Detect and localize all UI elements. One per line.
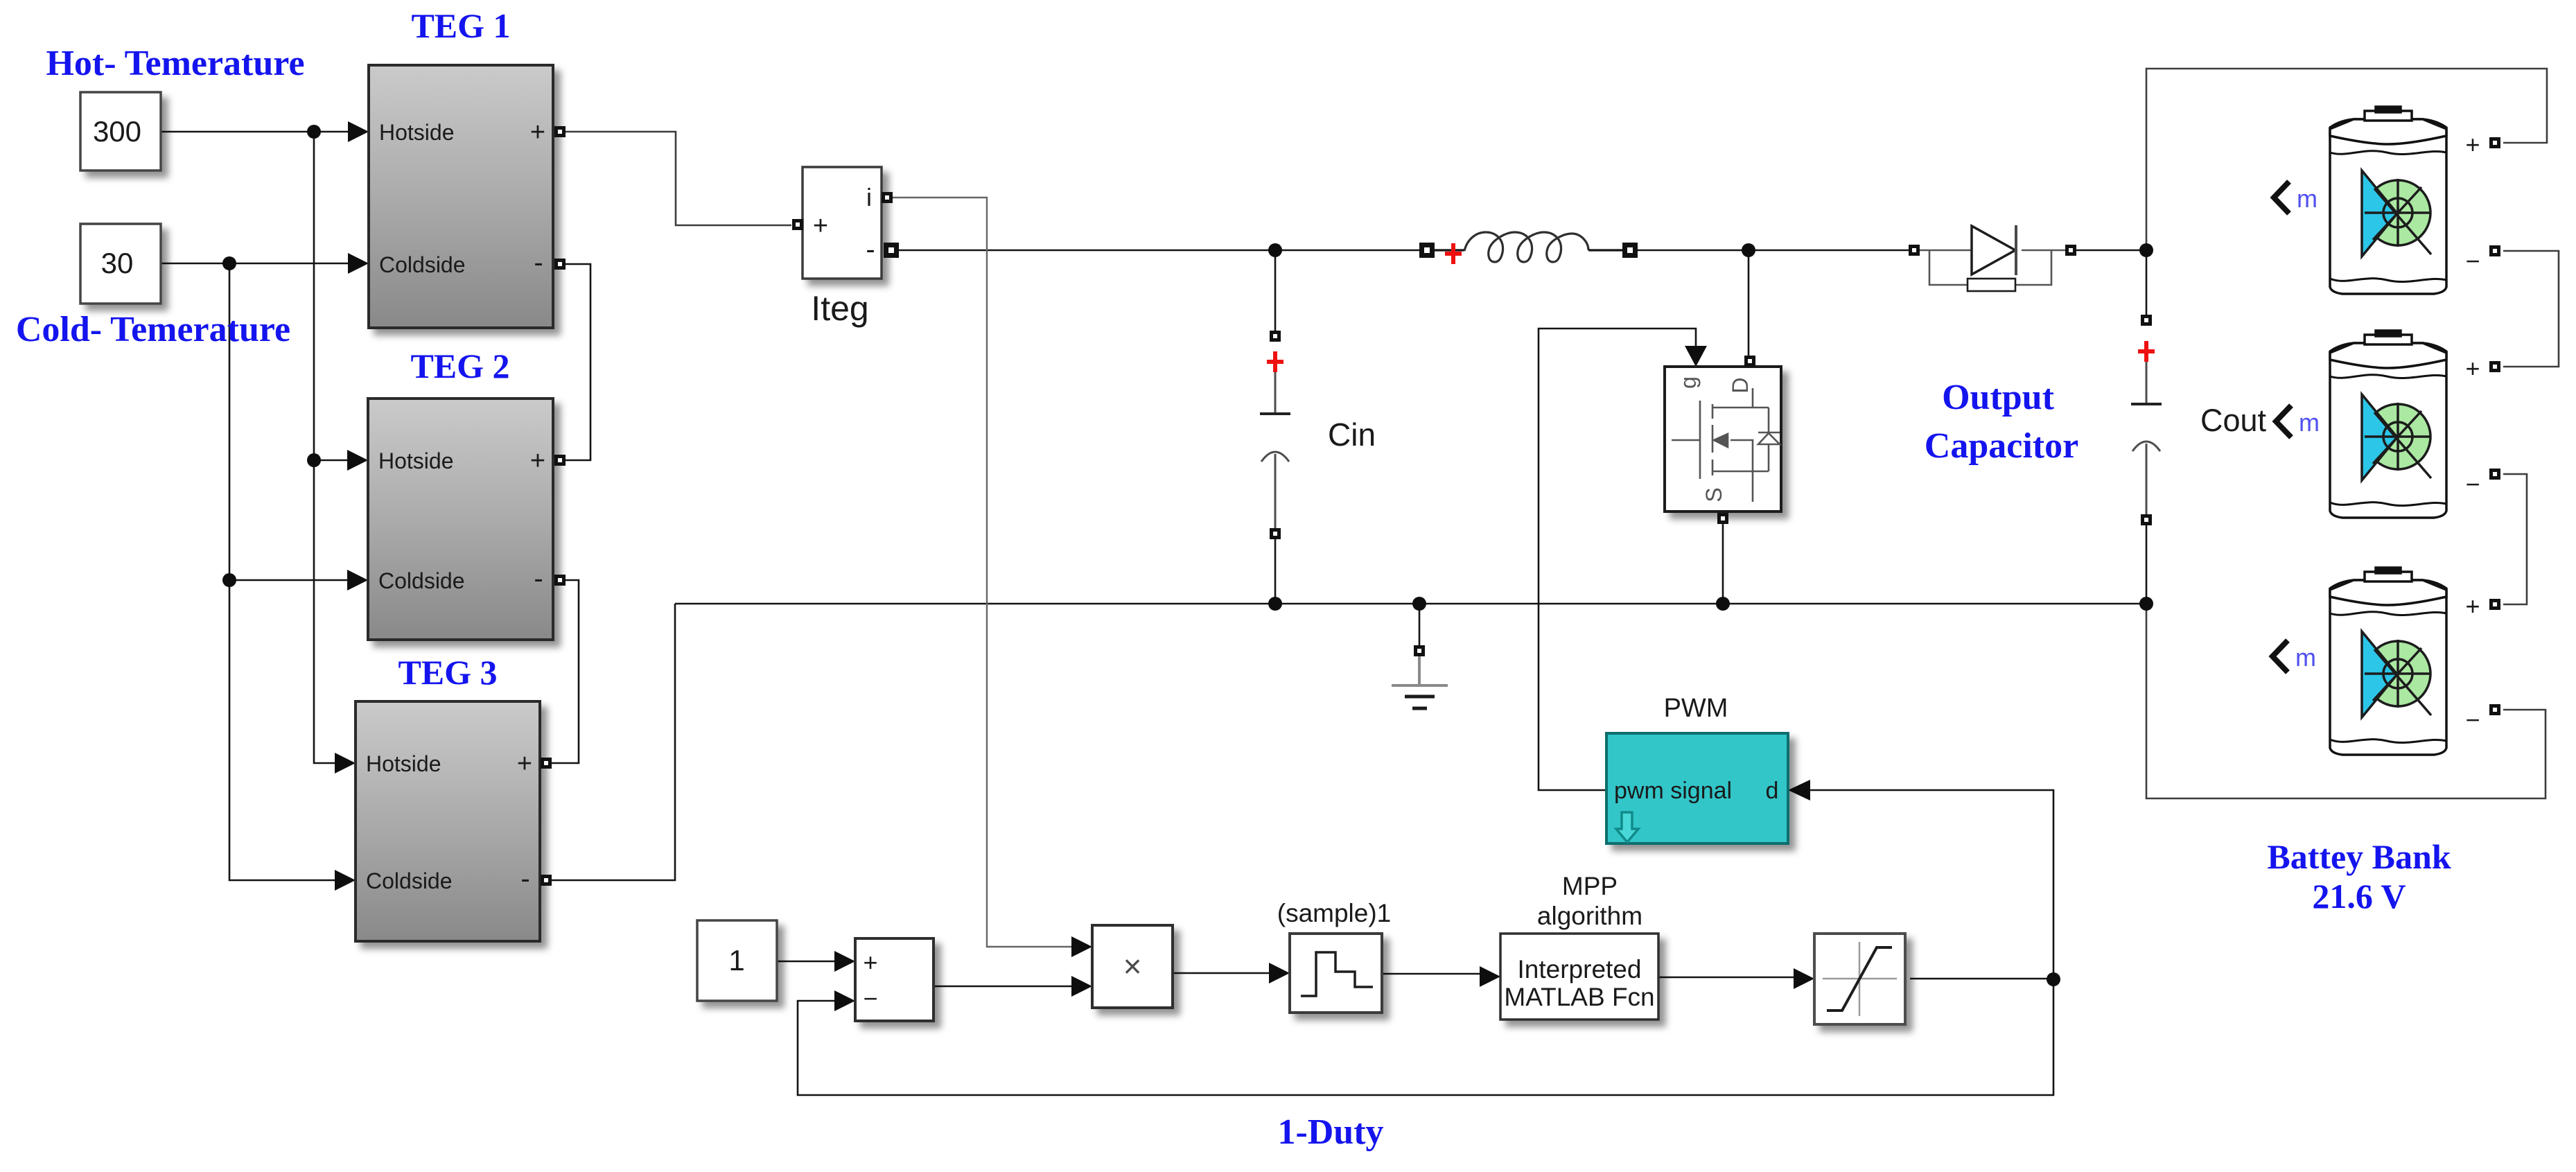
svg-text:Hotside: Hotside [379, 120, 455, 145]
svg-text:-: - [866, 234, 875, 265]
wire TEG3- to ground bus [552, 604, 675, 880]
svg-text:1: 1 [728, 944, 744, 977]
wire TEG2 Coldside feed [229, 579, 351, 581]
port ground [1414, 645, 1425, 656]
svg-text:TEG 2: TEG 2 [410, 347, 509, 385]
constant block 30 [80, 224, 161, 304]
capacitor Cout symbol [2131, 362, 2162, 520]
svg-text:S: S [1701, 487, 1726, 502]
node diode output junction [2139, 243, 2153, 257]
svg-text:d: d [1766, 778, 1779, 804]
wire Cout bottom [2146, 525, 2148, 604]
port Iteg minus out [884, 243, 899, 258]
svg-text:Hotside: Hotside [378, 448, 454, 473]
node mosfet drain junction [1742, 243, 1755, 257]
red plus Cin [1267, 351, 1283, 372]
svg-text:300: 300 [93, 115, 141, 148]
svg-text:Coldside: Coldside [366, 868, 453, 893]
svg-text:D: D [1728, 377, 1753, 393]
wire 300 to TEG1 Hotside [161, 131, 351, 133]
port battery2 minus [2489, 469, 2500, 480]
wire Iteg i signal [892, 198, 1073, 947]
wire sample out to MATLAB Fcn [1382, 973, 1481, 975]
svg-text:m: m [2295, 643, 2316, 672]
port Cout top [2141, 315, 2152, 326]
wire mosfet source to bus [1722, 524, 1724, 604]
svg-text:Cin: Cin [1328, 417, 1376, 453]
saturation icon [1823, 942, 1897, 1016]
sample staircase icon [1301, 952, 1373, 996]
port TEG1 plus [554, 126, 566, 137]
svg-text:-: - [534, 247, 543, 278]
port TEG1 minus [554, 259, 566, 270]
svg-text:+: + [2465, 592, 2480, 620]
port inductor right [1622, 243, 1638, 258]
port battery1 plus [2489, 137, 2500, 148]
svg-text:−: − [2465, 247, 2480, 275]
wire TEG2 Hotside feed [314, 460, 351, 462]
battery3 m label [2272, 640, 2288, 672]
red plus Cout [2138, 341, 2155, 362]
port battery1 minus [2489, 245, 2500, 256]
svg-text:Iteg: Iteg [811, 289, 868, 328]
wire TEG1- to TEG2+ [566, 264, 590, 460]
node TEG2 hotside junction [307, 453, 321, 467]
svg-text:m: m [2297, 184, 2317, 213]
node cold-wire junction [222, 256, 236, 270]
wire Cin top [1274, 250, 1277, 331]
svg-text:Hot- Temerature: Hot- Temerature [46, 44, 304, 83]
svg-text:MPP: MPP [1562, 872, 1618, 900]
svg-text:m: m [2299, 408, 2320, 437]
svg-text:30: 30 [101, 247, 134, 279]
svg-text:+: + [863, 948, 877, 977]
wire duty feedback bottom [798, 979, 2053, 1095]
svg-text:pwm signal: pwm signal [1614, 778, 1732, 804]
arrow into sample block [1269, 963, 1290, 983]
PWM inner arrow icon [1616, 812, 1638, 842]
wire battery2- to battery3+ [2503, 474, 2527, 604]
mosfet internal symbol [1672, 388, 1780, 502]
inductor coil [1432, 232, 1624, 262]
port Cout bottom [2141, 514, 2152, 525]
arrow into TEG3 Hotside [335, 753, 356, 773]
wire ground bus [675, 603, 2146, 605]
svg-text:+: + [813, 211, 828, 240]
wire PWM d feedback [1809, 790, 2053, 979]
wire constant1 to sum [777, 961, 834, 963]
ground symbol [1392, 656, 1448, 708]
svg-text:Output: Output [1942, 378, 2055, 417]
wire battery3- to bus [2146, 604, 2546, 798]
subsystem TEG 2 [368, 399, 553, 640]
port Iteg plus in [792, 219, 803, 230]
port diode out [2065, 245, 2076, 256]
saturation block [1814, 934, 1905, 1024]
node duty junction [2047, 972, 2060, 986]
svg-text:-: - [534, 563, 543, 594]
svg-text:(sample)1: (sample)1 [1277, 899, 1392, 927]
arrow into MATLAB Fcn [1480, 966, 1500, 987]
port mosfet drain [1744, 356, 1755, 367]
constant block 300 [80, 92, 161, 170]
svg-text:Coldside: Coldside [379, 252, 466, 277]
wire diode out to junction [2076, 250, 2146, 252]
wire inductor to diode [1636, 250, 1909, 252]
battery1 m label [2274, 182, 2289, 213]
arrow into TEG1 Coldside [348, 253, 369, 274]
svg-text:+: + [530, 118, 545, 147]
arrow into saturation [1794, 968, 1814, 989]
svg-text:algorithm: algorithm [1537, 902, 1642, 930]
svg-text:MATLAB Fcn: MATLAB Fcn [1504, 983, 1654, 1011]
wire 30 to TEG1 Coldside [161, 263, 351, 265]
port diode in [1909, 245, 1920, 256]
svg-text:×: × [1123, 948, 1142, 984]
PWM block [1606, 733, 1788, 843]
node Cin top junction [1268, 243, 1282, 257]
wire TEG2- to TEG3+ [552, 580, 579, 763]
svg-text:-: - [520, 864, 529, 894]
battery 2 [2330, 331, 2446, 518]
port mosfet source [1717, 513, 1728, 524]
node hot-wire junction [307, 125, 321, 139]
svg-text:Cout: Cout [2200, 403, 2267, 438]
svg-text:g: g [1676, 376, 1701, 389]
battery2 m label [2276, 405, 2291, 437]
svg-text:i: i [866, 183, 872, 211]
battery 1 [2330, 107, 2446, 294]
wire battery1- to battery2+ [2503, 251, 2559, 367]
arrow into PWM d input [1788, 780, 1810, 801]
arrow into TEG2 Hotside [347, 450, 368, 471]
svg-text:−: − [863, 984, 877, 1013]
svg-text:TEG 3: TEG 3 [398, 653, 497, 692]
node mosfet source bus junction [1716, 597, 1730, 611]
wire battery loop top [2146, 69, 2547, 250]
sample block [1290, 934, 1382, 1013]
wire ground stem [1419, 604, 1421, 645]
port TEG3 plus [541, 758, 552, 769]
port Cin top [1270, 331, 1281, 342]
wire sum out to product [934, 986, 1073, 988]
diode with snubber [1920, 225, 2065, 291]
sum block [855, 938, 934, 1021]
svg-text:PWM: PWM [1664, 694, 1728, 723]
svg-text:TEG 1: TEG 1 [411, 6, 510, 45]
port inductor left [1419, 243, 1435, 258]
node Cin bus junction [1268, 597, 1282, 611]
svg-text:+: + [517, 749, 532, 778]
port battery2 plus [2489, 361, 2500, 372]
product block [1092, 925, 1173, 1008]
subsystem TEG 1 [369, 65, 553, 328]
svg-text:Interpreted: Interpreted [1518, 955, 1642, 983]
node Cout bus junction [2139, 597, 2153, 611]
constant block 1 [697, 920, 777, 1001]
port battery3 plus [2489, 599, 2500, 610]
port TEG2 minus [554, 575, 566, 586]
port Cin bottom [1270, 528, 1281, 539]
wire cold vertical feed [229, 263, 338, 880]
svg-text:−: − [2465, 470, 2480, 498]
node TEG2 coldside junction [222, 573, 236, 587]
arrow into sum minus [834, 990, 855, 1011]
Interpreted MATLAB Fcn block [1500, 934, 1658, 1020]
svg-text:+: + [2465, 130, 2480, 159]
port TEG3 minus [541, 875, 552, 886]
svg-text:Capacitor: Capacitor [1925, 426, 2078, 466]
wire Iteg- to inductor [895, 250, 1421, 252]
wire MATLAB Fcn to saturation [1658, 977, 1795, 979]
subsystem TEG 3 [356, 701, 540, 941]
wire PWM output to mosfet gate [1539, 329, 1696, 790]
wire TEG1+ to Iteg+ [566, 132, 791, 225]
svg-text:Cold- Temerature: Cold- Temerature [16, 310, 290, 349]
arrow into TEG1 Hotside [348, 121, 369, 142]
JUNCTIONS-LAYER [222, 125, 2153, 986]
BLOCKS-LAYER [80, 65, 2446, 1024]
battery 3 [2330, 568, 2446, 755]
wire Cin bottom [1274, 539, 1277, 604]
wire hot vertical feed [314, 132, 338, 763]
port battery3 minus [2489, 704, 2500, 715]
arrow into mosfet gate [1685, 346, 1707, 367]
capacitor Cin symbol [1260, 372, 1290, 529]
wire saturation out to junction [1910, 978, 2053, 980]
ARROWHEADS-LAYER [335, 121, 1814, 1011]
node ground bus junction [1412, 597, 1426, 611]
arrow into sum plus [834, 951, 855, 972]
svg-text:21.6 V: 21.6 V [2312, 877, 2406, 916]
arrow into product bottom [1071, 976, 1092, 997]
svg-text:+: + [530, 446, 545, 475]
svg-text:Battey Bank: Battey Bank [2267, 837, 2451, 876]
svg-text:−: − [2465, 706, 2480, 734]
svg-text:Hotside: Hotside [366, 751, 441, 776]
wire product out to sample [1173, 972, 1270, 974]
wire Cout top [2146, 250, 2148, 315]
arrow into TEG3 Coldside [335, 870, 356, 891]
red plus inductor [1445, 243, 1462, 264]
PORTS-LAYER [541, 126, 2500, 886]
svg-text:Coldside: Coldside [378, 568, 465, 593]
port TEG2 plus [554, 455, 566, 466]
battery recycle icon [2362, 170, 2431, 256]
svg-text:+: + [2465, 354, 2480, 383]
arrow into product top [1071, 936, 1092, 957]
wire to mosfet drain [1748, 250, 1750, 356]
port Iteg i out [882, 192, 893, 203]
svg-text:1-Duty: 1-Duty [1277, 1112, 1383, 1152]
current sensor Iteg [803, 167, 882, 279]
arrow into TEG2 Coldside [347, 570, 368, 591]
mosfet block body [1665, 367, 1781, 511]
